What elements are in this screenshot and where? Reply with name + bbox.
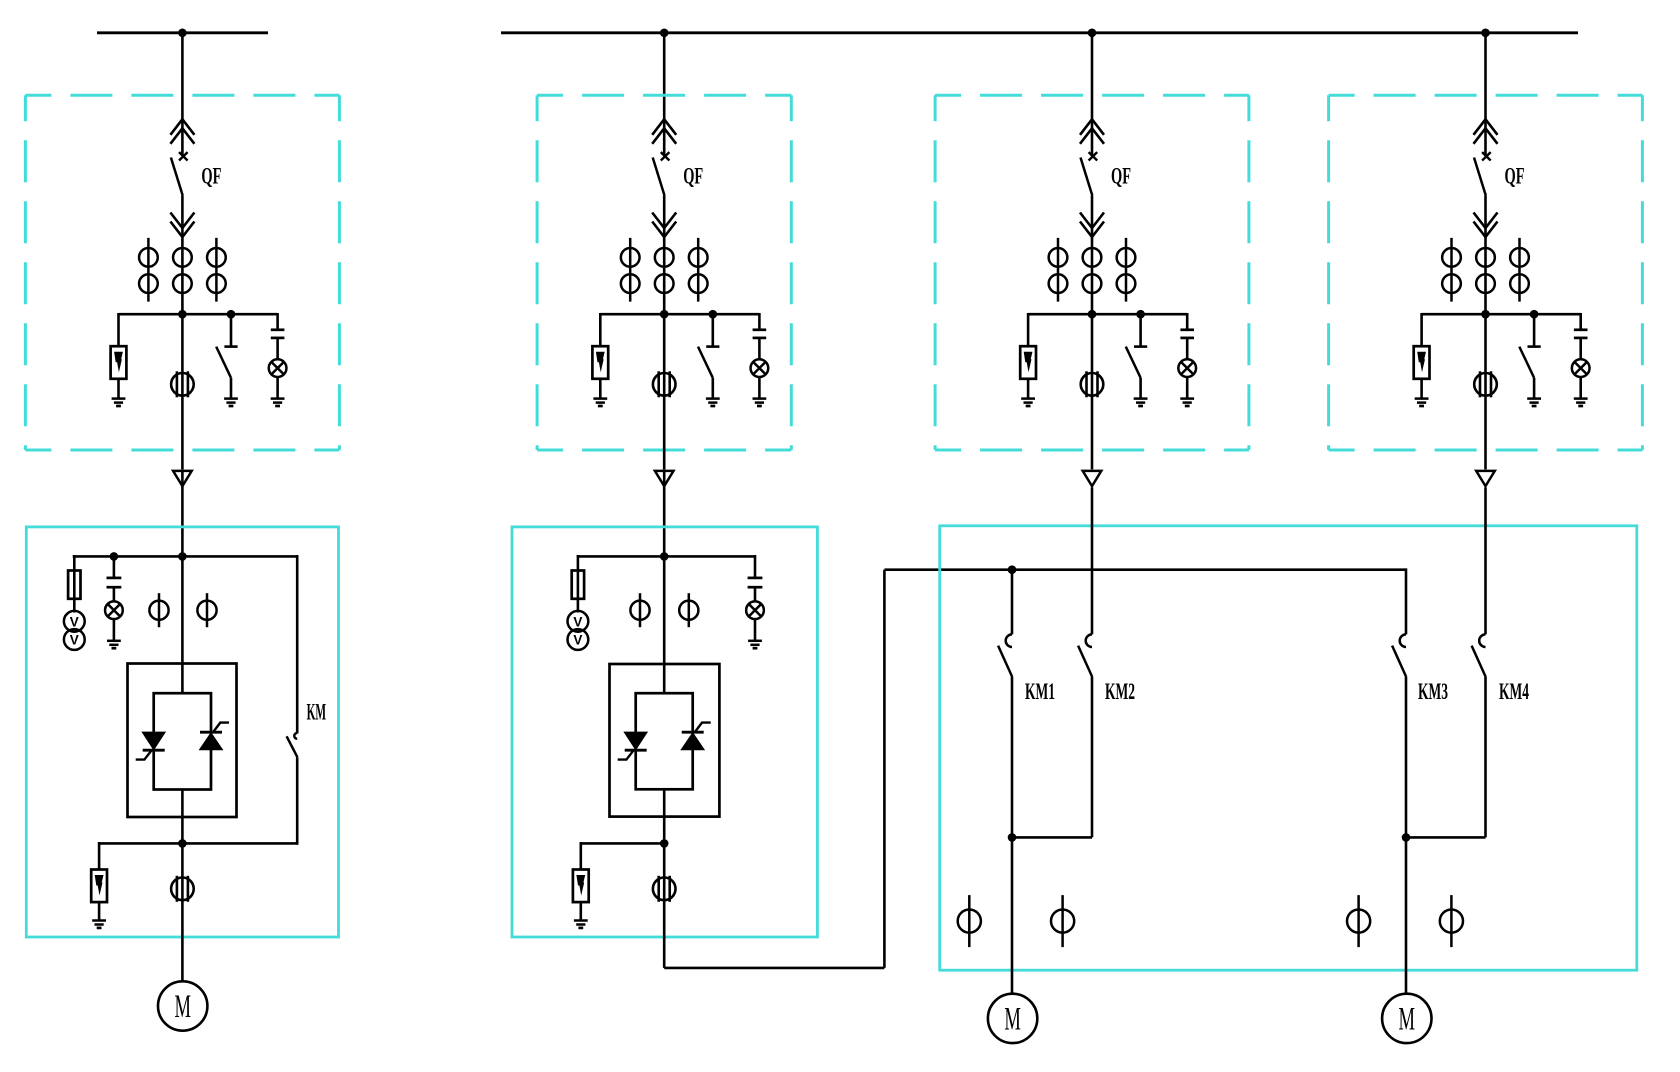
soft start distribution bus wire (884, 568, 1406, 571)
wire to PT fuse feeder 1 (73, 555, 76, 613)
wire feeder 1 main down through cubicle (181, 314, 184, 469)
wire lamp to ground feeder 2 cabinet (754, 619, 757, 641)
branch bus wire feeder 4 (1422, 313, 1581, 316)
svg-text:M: M (1399, 1001, 1416, 1037)
CT phi symbol motor 1 left (958, 895, 981, 947)
contactor KM4 wire lower (1484, 677, 1487, 838)
output charged display sensor feeder 2 (653, 876, 676, 902)
svg-text:V: V (573, 615, 582, 630)
output bus wire feeder 2 (581, 842, 664, 845)
branch bus wire feeder 3 (1028, 313, 1187, 316)
wire starter to motor feeder 1 (181, 843, 184, 981)
switchgear cubicle dashed enclosure feeder 4 (1329, 95, 1643, 450)
thyristor SCR left feeder 2 (618, 732, 647, 759)
ground below earthing switch feeder 2 (706, 399, 720, 406)
wire feeder 3 drop from busbar (1091, 33, 1094, 156)
drawout plug contact lower feeder 4 (1474, 213, 1498, 238)
wire to earthing switch feeder 3 (1139, 314, 1142, 346)
ammeter phi symbol 1 feeder 2 (630, 593, 649, 627)
drawout plug contact upper feeder 4 (1474, 119, 1498, 144)
capacitor of display feeder 1 cabinet (107, 578, 122, 587)
contactor KM3 wire upper (1405, 568, 1408, 634)
node: feeder 4 branch junction center (1481, 310, 1490, 319)
capacitor of voltage display feeder 1 (271, 330, 285, 338)
wire cable to soft starter cabinet feeder 1 (181, 470, 184, 694)
svg-text:M: M (1004, 1001, 1021, 1037)
thyristor SCR right feeder 1 (200, 723, 229, 750)
capacitor of voltage display feeder 2 (753, 330, 767, 338)
wire feeder 2 output riser (883, 570, 886, 968)
current transformers 3x2 feeder 4 (1442, 238, 1529, 302)
voltage display lamp feeder 2 (751, 359, 769, 377)
wire capacitor to lamp feeder 1 cabinet (113, 587, 116, 601)
ground below output arrester feeder 2 (574, 921, 588, 928)
drawout plug contact upper feeder 1 (170, 119, 194, 144)
wire capacitor to display lamp feeder 1 (276, 338, 279, 359)
wire feeder 3 main down through cubicle (1091, 314, 1094, 469)
wire to surge arrester feeder 1 (117, 313, 120, 346)
PT fuse feeder 2 (572, 571, 584, 599)
ground in cabinet feeder 2 (748, 641, 762, 648)
cabinet internal bus wire feeder 1 (73, 555, 298, 558)
cabinet internal bus wire feeder 2 (578, 555, 755, 558)
earthing switch feeder 1 (216, 347, 237, 399)
node: feeder 3 branch junction center (1088, 310, 1097, 319)
node: bus tap feeder 3 (1088, 29, 1097, 38)
node: cabinet bus junction feeder 2 (660, 552, 669, 561)
wire arrester to ground feeder 1 (117, 379, 120, 399)
wire to motor 1 (1011, 837, 1014, 993)
capacitor of voltage display feeder 3 (1180, 330, 1194, 338)
wire to display capacitor feeder 2 (758, 313, 761, 330)
node: starter output junction feeder 2 (660, 839, 669, 848)
ground below display lamp feeder 1 (271, 399, 285, 406)
wire to surge arrester feeder 4 (1420, 313, 1423, 346)
charged display sensor feeder 4 (1474, 371, 1497, 397)
wire to PT fuse feeder 2 (577, 555, 580, 613)
node: feeder 4 branch junction right (1530, 310, 1539, 319)
busbar section 1 (97, 31, 268, 34)
branch bus wire feeder 2 (600, 313, 759, 316)
bypass contactor KM contact feeder 1 (287, 733, 298, 757)
svg-text:V: V (573, 633, 582, 648)
wire capacitor to display lamp feeder 4 (1579, 338, 1582, 359)
node: KM1 tap on soft start bus (1008, 565, 1017, 574)
wire KM2 jog to motor 1 node (1012, 836, 1092, 839)
node: display branch junction feeder 1 (110, 552, 119, 561)
svg-text:M: M (174, 989, 191, 1025)
ammeter phi symbol 1 feeder 1 (149, 593, 168, 627)
thyristor SCR right feeder 2 (682, 723, 711, 750)
wire capacitor to display lamp feeder 2 (758, 338, 761, 359)
node: feeder 1 branch junction center (178, 310, 187, 319)
node: starter output junction feeder 1 (178, 839, 187, 848)
wire feeder 1 drop from busbar (181, 33, 184, 156)
wire output arrester to ground feeder 2 (579, 902, 582, 920)
output surge arrester feeder 1 (91, 870, 107, 903)
thyristor SCR left feeder 1 (136, 732, 165, 759)
node: bus tap feeder 2 (660, 29, 669, 38)
wire to surge arrester feeder 3 (1027, 313, 1030, 346)
wire feeder 2 through CTs to branch bus (663, 240, 666, 314)
contactor KM1 wire lower (1011, 677, 1014, 838)
svg-text:KM3: KM3 (1418, 679, 1448, 704)
wire starter output feeder 2 (663, 789, 666, 843)
current transformers 3x2 feeder 1 (139, 238, 226, 302)
ground below display lamp feeder 2 (753, 399, 767, 406)
wire to display capacitor feeder 3 (1186, 313, 1189, 330)
wire to output arrester feeder 2 (579, 842, 582, 870)
svg-text:QF: QF (1111, 164, 1131, 189)
voltage display lamp feeder 1 (269, 359, 287, 377)
wire feeder 2 starter output down (663, 843, 666, 968)
drawout plug contact lower feeder 3 (1080, 213, 1104, 238)
motor M switchover 2 (1382, 994, 1431, 1043)
circuit breaker QF feeder 1 (171, 152, 188, 195)
circuit breaker QF feeder 3 (1081, 152, 1098, 195)
wire lamp to ground feeder 4 (1579, 377, 1582, 399)
charged display sensor feeder 3 (1081, 371, 1104, 397)
wire breaker to drawout contact feeder 4 (1484, 196, 1487, 241)
ground below arrester feeder 3 (1021, 399, 1035, 406)
ground below display lamp feeder 4 (1574, 399, 1588, 406)
ground below display lamp feeder 3 (1180, 399, 1194, 406)
wire feeder 2 drop from busbar (663, 33, 666, 156)
current transformers 3x2 feeder 3 (1049, 238, 1136, 302)
wire to display capacitor feeder 1 (276, 313, 279, 330)
svg-text:QF: QF (683, 164, 703, 189)
wire lamp to ground feeder 1 (276, 377, 279, 399)
svg-text:QF: QF (1505, 164, 1525, 189)
surge arrester feeder 3 (1020, 346, 1036, 379)
earthing switch feeder 4 (1519, 347, 1540, 399)
svg-text:QF: QF (201, 164, 221, 189)
voltmeter pair feeder 2 (568, 611, 589, 650)
node: cabinet bus junction feeder 1 (178, 552, 187, 561)
contactor KM3 wire lower (1405, 677, 1408, 838)
circuit breaker QF feeder 4 (1474, 152, 1491, 195)
soft starter module outer box feeder 2 (610, 664, 720, 817)
ground below arrester feeder 2 (593, 399, 607, 406)
soft starter cabinet enclosure feeder 2 (512, 527, 817, 937)
wire breaker to drawout contact feeder 1 (181, 196, 184, 241)
ground below arrester feeder 4 (1415, 399, 1429, 406)
switchover cabinet enclosure (940, 526, 1637, 970)
wire starter output feeder 1 (181, 789, 184, 843)
bypass contactor KM wire lower feeder 1 (296, 757, 299, 845)
surge arrester feeder 2 (592, 346, 608, 379)
wire feeder 2 main down through cubicle (663, 314, 666, 469)
ground below earthing switch feeder 3 (1134, 399, 1148, 406)
node: feeder 2 branch junction center (660, 310, 669, 319)
wire capacitor to lamp feeder 2 cabinet (754, 587, 757, 601)
wire lamp to ground feeder 1 cabinet (113, 619, 116, 641)
svg-text:KM4: KM4 (1499, 679, 1529, 704)
busbar section 2 (501, 31, 1578, 34)
switchgear cubicle dashed enclosure feeder 1 (25, 95, 339, 450)
thyristor stack inner box feeder 2 (636, 693, 693, 789)
output bus wire feeder 1 (99, 842, 297, 845)
contactor KM4 contact (1472, 634, 1486, 677)
wire breaker to drawout contact feeder 2 (663, 196, 666, 241)
wire to display capacitor in cabinet feeder 2 (754, 555, 757, 578)
svg-text:KM1: KM1 (1025, 679, 1055, 704)
wire feeder 3 through CTs to branch bus (1091, 240, 1094, 314)
node: feeder 1 branch junction right (227, 310, 236, 319)
wire feeder 4 drop from busbar (1484, 33, 1487, 156)
switchgear cubicle dashed enclosure feeder 2 (537, 95, 791, 450)
wire feeder 4 cable into cabinet (1484, 487, 1487, 634)
drawout plug contact lower feeder 1 (170, 213, 194, 238)
circuit breaker QF feeder 2 (653, 152, 670, 195)
wire capacitor to display lamp feeder 3 (1186, 338, 1189, 359)
node: feeder 3 branch junction right (1136, 310, 1145, 319)
thyristor stack inner box feeder 1 (154, 693, 211, 789)
svg-text:V: V (70, 615, 79, 630)
wire arrester to ground feeder 3 (1027, 379, 1030, 399)
contactor KM2 contact (1078, 634, 1092, 677)
wire cable to soft starter cabinet feeder 2 (663, 470, 666, 694)
node: bus tap feeder 1 (178, 29, 187, 38)
charged display sensor feeder 1 (171, 371, 194, 397)
voltmeter pair feeder 1 (64, 611, 85, 650)
contactor KM1 contact (998, 634, 1012, 677)
wire feeder 4 through CTs to branch bus (1484, 240, 1487, 314)
capacitor of display feeder 2 cabinet (748, 578, 763, 587)
wire to earthing switch feeder 2 (711, 314, 714, 346)
node: motor 1 feed junction (1008, 833, 1017, 842)
wire breaker to drawout contact feeder 3 (1091, 196, 1094, 241)
soft starter module outer box feeder 1 (128, 664, 237, 818)
ammeter phi symbol 2 feeder 1 (197, 593, 216, 627)
CT phi symbol motor 2 right (1440, 895, 1463, 947)
earthing switch feeder 3 (1126, 347, 1147, 399)
cable head arrow feeder 4 (1476, 471, 1495, 486)
wire to earthing switch feeder 4 (1533, 314, 1536, 346)
PT fuse feeder 1 (68, 571, 80, 599)
charged display sensor feeder 2 (653, 371, 676, 397)
svg-text:KM: KM (307, 700, 327, 725)
wire arrester to ground feeder 2 (599, 379, 602, 399)
display lamp feeder 1 cabinet (105, 601, 123, 619)
ground below earthing switch feeder 4 (1527, 399, 1541, 406)
switchgear cubicle dashed enclosure feeder 3 (935, 95, 1249, 450)
drawout plug contact upper feeder 3 (1080, 119, 1104, 144)
contactor KM1 wire upper (1011, 570, 1014, 635)
wire to display capacitor in cabinet feeder 1 (113, 556, 116, 577)
svg-text:KM2: KM2 (1105, 679, 1135, 704)
svg-text:V: V (70, 633, 79, 648)
wire feeder 3 cable into cabinet (1091, 487, 1094, 634)
wire arrester to ground feeder 4 (1420, 379, 1423, 399)
wire to surge arrester feeder 2 (599, 313, 602, 346)
node: motor 2 feed junction (1402, 833, 1411, 842)
voltage display lamp feeder 3 (1178, 359, 1196, 377)
CT phi symbol motor 1 right (1051, 895, 1074, 947)
motor M switchover 1 (988, 994, 1037, 1043)
CT phi symbol motor 2 left (1347, 895, 1370, 947)
wire to display capacitor feeder 4 (1579, 313, 1582, 330)
node: bus tap feeder 4 (1481, 29, 1490, 38)
wire lamp to ground feeder 3 (1186, 377, 1189, 399)
cable head arrow feeder 1 (173, 471, 192, 486)
branch bus wire feeder 1 (119, 313, 278, 316)
output surge arrester feeder 2 (573, 870, 589, 903)
contactor KM2 wire lower (1091, 677, 1094, 838)
ground below output arrester feeder 1 (92, 921, 106, 928)
wire output arrester to ground feeder 1 (98, 902, 101, 920)
contactor KM3 contact (1392, 634, 1406, 677)
wire lamp to ground feeder 2 (758, 377, 761, 399)
ammeter phi symbol 2 feeder 2 (679, 593, 698, 627)
capacitor of voltage display feeder 4 (1574, 330, 1588, 338)
current transformers 3x2 feeder 2 (621, 238, 708, 302)
wire feeder 4 main down through cubicle (1484, 314, 1487, 469)
wire to earthing switch feeder 1 (230, 314, 233, 346)
ground in cabinet feeder 1 (107, 641, 121, 648)
surge arrester feeder 4 (1414, 346, 1430, 379)
output charged display sensor feeder 1 (171, 876, 194, 902)
earthing switch feeder 2 (698, 347, 719, 399)
motor M feeder 1 (158, 981, 207, 1030)
soft starter cabinet enclosure feeder 1 (26, 527, 338, 937)
surge arrester feeder 1 (111, 346, 127, 379)
drawout plug contact lower feeder 2 (652, 213, 676, 238)
cable head arrow feeder 2 (655, 471, 674, 486)
drawout plug contact upper feeder 2 (652, 119, 676, 144)
wire KM4 jog to motor 2 node (1406, 836, 1486, 839)
wire feeder 1 through CTs to branch bus (181, 240, 184, 314)
wire to output arrester feeder 1 (98, 842, 101, 870)
voltage display lamp feeder 4 (1572, 359, 1590, 377)
ground below arrester feeder 1 (112, 399, 126, 406)
cable head arrow feeder 3 (1083, 471, 1102, 486)
bypass contactor KM wire upper feeder 1 (296, 555, 299, 734)
wire feeder 2 output jog horizontal (664, 967, 884, 970)
ground below earthing switch feeder 1 (224, 399, 238, 406)
node: feeder 2 branch junction right (709, 310, 718, 319)
display lamp feeder 2 cabinet (746, 601, 764, 619)
wire to motor 2 (1405, 837, 1408, 993)
